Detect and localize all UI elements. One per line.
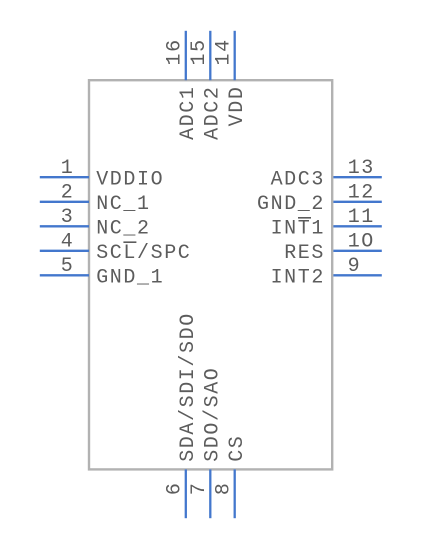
pin 8 wire xyxy=(234,469,236,518)
svg-text:6: 6 xyxy=(164,481,187,495)
svg-text:3: 3 xyxy=(61,206,75,229)
svg-text:13: 13 xyxy=(348,157,375,180)
pin 9 wire xyxy=(333,274,381,276)
svg-text:12: 12 xyxy=(348,182,375,205)
pin 13 wire xyxy=(333,176,381,178)
pin 11 wire xyxy=(333,225,381,227)
pin 14 wire xyxy=(234,31,236,80)
pin 3 wire xyxy=(40,225,89,227)
pin 10 wire xyxy=(333,250,381,252)
svg-text:ADC2: ADC2 xyxy=(202,86,225,140)
IC body U1 rectangle xyxy=(89,80,332,469)
svg-text:NC_1: NC_1 xyxy=(96,193,150,216)
svg-text:INT2: INT2 xyxy=(271,267,325,290)
svg-text:1: 1 xyxy=(61,157,75,180)
pin 4 name overline over L xyxy=(123,241,136,243)
svg-text:8: 8 xyxy=(212,481,235,495)
pin 15 wire xyxy=(209,31,211,80)
svg-text:CS: CS xyxy=(226,435,249,462)
pin 11 name overline over T xyxy=(298,217,311,219)
svg-text:SCL/SPC: SCL/SPC xyxy=(96,242,191,265)
svg-text:1O: 1O xyxy=(348,231,375,254)
svg-text:7: 7 xyxy=(188,481,211,495)
svg-text:ADC1: ADC1 xyxy=(177,86,200,140)
svg-text:VDDIO: VDDIO xyxy=(96,168,164,191)
pin 7 wire xyxy=(209,469,211,518)
svg-text:GND_1: GND_1 xyxy=(96,267,164,290)
svg-text:INT1: INT1 xyxy=(271,218,325,241)
svg-text:9: 9 xyxy=(348,255,362,278)
pin 16 wire xyxy=(185,31,187,80)
svg-text:NC_2: NC_2 xyxy=(96,218,150,241)
pin 2 wire xyxy=(40,201,89,203)
svg-text:15: 15 xyxy=(188,38,211,65)
pin 4 wire xyxy=(40,250,89,252)
svg-text:GND_2: GND_2 xyxy=(257,193,325,216)
svg-text:5: 5 xyxy=(61,255,75,278)
svg-text:4: 4 xyxy=(61,231,75,254)
svg-text:SDO/SAO: SDO/SAO xyxy=(202,367,225,462)
svg-text:14: 14 xyxy=(212,38,235,65)
svg-text:VDD: VDD xyxy=(226,86,249,127)
pin 5 wire xyxy=(40,274,89,276)
svg-text:ADC3: ADC3 xyxy=(271,168,325,191)
pin 12 wire xyxy=(333,201,381,203)
svg-text:11: 11 xyxy=(348,206,375,229)
svg-text:16: 16 xyxy=(164,38,187,65)
pin 1 wire xyxy=(40,176,89,178)
svg-text:SDA/SDI/SDO: SDA/SDI/SDO xyxy=(177,312,200,462)
svg-text:RES: RES xyxy=(284,242,325,265)
svg-text:2: 2 xyxy=(61,182,75,205)
pin 6 wire xyxy=(185,469,187,518)
